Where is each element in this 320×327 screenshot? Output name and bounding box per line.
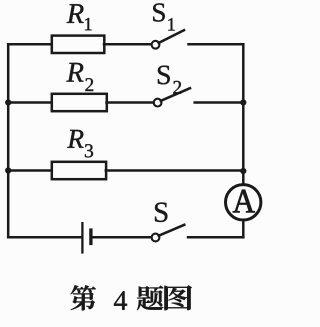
label R3 <box>67 130 93 158</box>
battery cell: long plate <box>81 222 83 254</box>
node: left rail / R2 junction <box>5 99 11 105</box>
wire: S1 to right rail <box>189 43 244 46</box>
label R2 <box>66 63 93 91</box>
switch S <box>152 225 185 242</box>
node: left rail / R3 junction <box>5 167 11 173</box>
caption: 第 4 题图 <box>71 285 192 310</box>
wire: left rail <box>7 44 10 237</box>
switch S1 <box>152 30 184 48</box>
wire: R1 to S1 <box>104 43 151 46</box>
resistor R2 <box>52 94 107 111</box>
label S (main switch) <box>155 203 167 222</box>
wire: battery to S <box>93 236 152 239</box>
wire: S to right rail <box>188 236 243 239</box>
label S2 <box>158 66 181 94</box>
label R1 <box>67 4 92 30</box>
switch S2 <box>154 88 190 106</box>
resistor R1 <box>52 36 105 53</box>
label A (ammeter letter) <box>233 190 255 212</box>
wire: right rail upper (to ammeter) <box>242 44 245 184</box>
wire: R1 row left <box>8 43 52 46</box>
wire: R3 to right rail <box>106 169 244 172</box>
wire: right rail lower (ammeter to bottom) <box>242 221 245 238</box>
wire: R3 row left <box>8 169 52 172</box>
node: right rail / R2 junction <box>240 99 246 105</box>
wire: S2 to right rail <box>195 101 244 104</box>
resistor R3 <box>52 162 106 179</box>
battery cell: short plate <box>89 228 92 245</box>
label S1 <box>153 3 175 30</box>
wire: R2 row left <box>8 101 52 104</box>
node: right rail / R3 junction <box>240 168 246 174</box>
wire: R2 to S2 <box>107 101 154 104</box>
wire: bottom left (rail to battery) <box>8 236 81 239</box>
ammeter A (meter body) <box>226 185 261 220</box>
